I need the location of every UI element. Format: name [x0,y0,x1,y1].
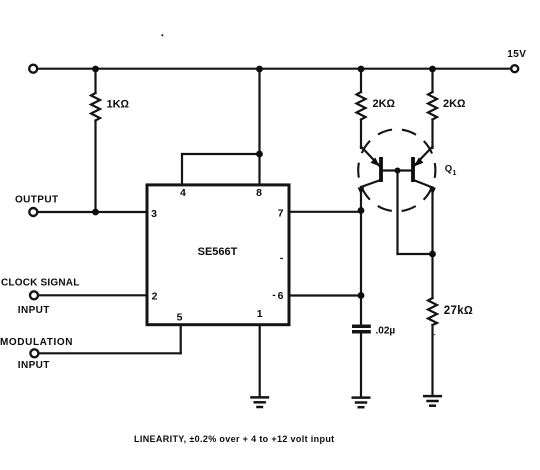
svg-text:OUTPUT: OUTPUT [15,195,59,206]
svg-text:3: 3 [151,208,157,220]
svg-text:-: - [272,289,276,301]
svg-text:2: 2 [152,291,158,303]
svg-text:INPUT: INPUT [18,360,50,371]
svg-text:2KΩ: 2KΩ [373,98,396,110]
svg-text:15V: 15V [507,49,526,60]
svg-text:27kΩ: 27kΩ [444,305,473,317]
svg-text:Q: Q [445,164,452,175]
svg-text:MODULATION: MODULATION [0,337,73,348]
svg-text:5: 5 [177,312,183,324]
svg-text:INPUT: INPUT [18,305,50,316]
svg-text:.02µ: .02µ [376,326,396,337]
svg-text:1: 1 [257,308,263,320]
svg-text:8: 8 [256,187,262,199]
svg-text:4: 4 [180,187,186,199]
svg-text:1: 1 [453,170,457,177]
svg-text:LINEARITY, ±0.2% over + 4 to +: LINEARITY, ±0.2% over + 4 to +12 volt in… [134,434,335,444]
svg-text:7: 7 [278,208,284,220]
svg-text:2KΩ: 2KΩ [443,98,466,110]
svg-text:1KΩ: 1KΩ [107,99,130,111]
svg-text:SE566T: SE566T [198,246,238,258]
svg-text:6: 6 [278,290,284,302]
svg-text:CLOCK SIGNAL: CLOCK SIGNAL [1,278,80,289]
